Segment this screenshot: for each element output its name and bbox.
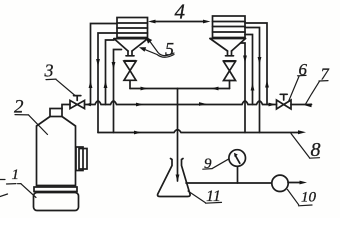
- exhaust header L3: [98, 130, 306, 135]
- svg-text:4: 4: [175, 0, 186, 24]
- valve 6 on air inlet line: [277, 94, 292, 109]
- cyclone separator 5 left body: [117, 18, 148, 38]
- platform scale 1: [34, 193, 79, 211]
- cyclone separator 5 right cone: [210, 39, 246, 56]
- svg-text:10: 10: [301, 190, 317, 206]
- pipe valve3 to tank neck: [62, 105, 70, 110]
- downcomer pipe left d (x113.5): [112, 50, 122, 133]
- riser pipe left c (x105.5): [104, 40, 114, 105]
- riser pipe right c (x252.5): [245, 35, 254, 105]
- transfer line 4 between cyclones: [148, 20, 211, 24]
- valve 3 on tank inlet: [70, 96, 91, 109]
- tank 2 bottom flange: [34, 187, 77, 192]
- cyclone separator 5 left cone: [114, 39, 148, 56]
- label 8: [291, 134, 321, 162]
- pipe from valve V2 to funnel junction: [178, 87, 230, 91]
- pipe funnel to blower: [186, 182, 272, 184]
- riser pipe left a (x90.5): [89, 24, 117, 105]
- valve V1 under left cyclone: [124, 61, 136, 89]
- label 10: [288, 190, 317, 206]
- pipe from valve V1 to funnel junction: [130, 87, 178, 91]
- tank 2 body: [37, 117, 76, 186]
- label 3: [44, 61, 76, 96]
- funnel 11: [158, 159, 191, 197]
- label 7: [306, 65, 330, 105]
- downcomer pipe right d (x245): [241, 43, 247, 133]
- cyclone separator 5 right body: [213, 16, 246, 38]
- label 4: [175, 0, 186, 24]
- label 5 with two leader arrows: [139, 37, 174, 59]
- svg-text:3: 3: [44, 61, 54, 81]
- tank 2 neck: [50, 109, 62, 117]
- downcomer pipe right b (x259.5): [245, 28, 261, 133]
- label 6: [289, 60, 308, 102]
- label 1: [0, 167, 36, 198]
- label 11: [188, 188, 222, 205]
- valve V2 under right cyclone: [224, 61, 236, 89]
- label 2: [14, 97, 48, 135]
- funnel pipe down: [176, 89, 180, 183]
- tank 2 level gauge: [76, 147, 87, 171]
- blower 10: [272, 175, 307, 191]
- air supply header L2 with hops: [85, 101, 312, 107]
- pressure gauge 9: [229, 150, 246, 183]
- riser pipe right a (x267): [245, 23, 269, 105]
- downcomer pipe left b (x98): [96, 33, 117, 133]
- svg-text:1: 1: [12, 167, 20, 183]
- label 9: [203, 156, 229, 172]
